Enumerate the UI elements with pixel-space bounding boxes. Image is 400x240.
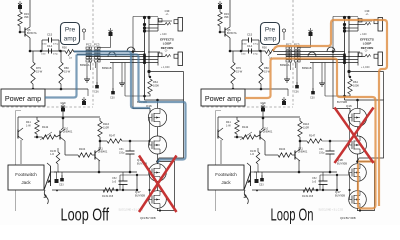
- highlight: send path around send jack (orange): [273, 20, 387, 66]
- red X over Q17/Q19 (bypassed): [139, 156, 177, 213]
- svg-text:Loop Off: Loop Off: [61, 205, 110, 225]
- highlight: signal path to Q16 gate (blue): [74, 52, 150, 109]
- schematic copy: Loop On: [201, 0, 384, 220]
- svg-text:Loop On: Loop On: [271, 205, 314, 225]
- highlight: return cable down right side (orange): [379, 66, 387, 206]
- highlight: preamp to power amp wire (orange): [245, 59, 273, 99]
- highlight: path around Q16/Q18 (blue): [77, 55, 186, 163]
- schematic copy: Loop Off: [1, 0, 184, 220]
- highlight: preamp to power amp wire (blue): [45, 55, 77, 98]
- highlight: jog to source node (orange): [358, 160, 376, 162]
- highlight: return feed to lower gates (orange): [273, 59, 376, 209]
- red X over Q16/Q18 (bypassed): [335, 108, 374, 164]
